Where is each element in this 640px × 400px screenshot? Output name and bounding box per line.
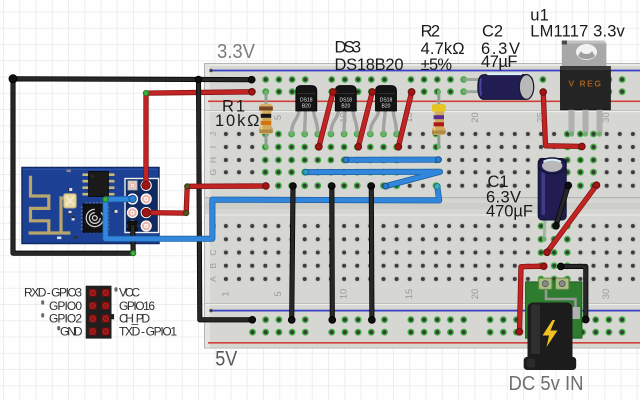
row letters (208, 132, 218, 282)
svg-text:G: G (208, 169, 218, 176)
wire: red 3.3V rail to ESP VCC (142, 89, 255, 190)
svg-text:B: B (208, 263, 218, 269)
svg-text:TXD - GPIO1: TXD - GPIO1 (119, 325, 177, 339)
svg-text:B20: B20 (302, 103, 311, 109)
voltage regulator u1 LM1117 (V REG) (561, 41, 611, 137)
wire: blue ESP GPIO2 to F17 (103, 184, 440, 239)
svg-text:1: 1 (221, 291, 232, 296)
svg-text:R2: R2 (421, 22, 441, 40)
sensor DS18B20 #2 (329, 86, 360, 137)
label DS3 / DS18B20 (335, 39, 404, 74)
resistor R1 10k (259, 90, 273, 149)
svg-text:GPIO16: GPIO16 (119, 299, 155, 313)
wire: red ESP GPIO to breadboard F4 (142, 183, 269, 217)
capacitor C2 47uF (462, 74, 534, 100)
svg-text:B20: B20 (341, 103, 350, 109)
sensor DS18B20 #3 (DS3) (368, 86, 399, 137)
top power rail lines (208, 69, 640, 102)
ESP-01 small SMD parts (57, 170, 118, 240)
svg-text:VCC: VCC (119, 286, 140, 300)
svg-text:5V: 5V (215, 347, 238, 371)
svg-text:DC 5v IN: DC 5v IN (509, 373, 584, 395)
ESP-01 module (blue PCB) (22, 168, 159, 244)
ESP-01 pinout legend block (86, 286, 114, 339)
resistor R2 4.7k (432, 90, 446, 149)
wire: black left vertical to bottom blue rail (195, 76, 255, 323)
sensor DS18B20 #1 (289, 86, 320, 137)
svg-text:C: C (208, 249, 218, 255)
wire: black F6 to bottom rail (288, 183, 296, 324)
breadboard body (204, 63, 640, 349)
ESP-01 flash chip (83, 172, 115, 197)
wire: black diagonal F27 to E26 (553, 182, 572, 229)
column numbers (221, 112, 613, 299)
wire: black GND loop from rail to ESP (9, 75, 255, 256)
wire: red rail to sensor2 I11 (355, 89, 376, 151)
legend labels left (24, 286, 83, 339)
svg-text:DS18B20: DS18B20 (335, 56, 404, 74)
label R2 4.7k ±5% (421, 22, 465, 74)
wire: black B27 to bottom blue rail (558, 263, 590, 323)
svg-text:LM1117 3.3v: LM1117 3.3v (530, 22, 625, 40)
svg-text:470µF: 470µF (486, 203, 533, 221)
svg-text:GND: GND (60, 325, 83, 339)
svg-text:30: 30 (601, 289, 612, 300)
wire: black F9 to bottom rail (329, 183, 336, 324)
svg-text:GPIO2: GPIO2 (49, 312, 82, 326)
legend labels right (119, 286, 177, 339)
wire: red rail to sensor1 I8 (316, 89, 337, 151)
svg-text:RXD - GPIO3: RXD - GPIO3 (24, 286, 82, 300)
bottom power rail lines (208, 309, 640, 344)
wire: red top rail to I28 (regulator out) (540, 89, 585, 150)
ESP-01 header pins block (125, 179, 159, 233)
svg-text:20: 20 (470, 289, 481, 300)
svg-text:10: 10 (339, 289, 350, 300)
center channel groove (205, 197, 640, 216)
svg-text:J: J (208, 132, 218, 136)
wire: blue G7 to F13 (303, 169, 440, 189)
svg-text:±5%: ±5% (421, 56, 453, 74)
svg-text:5: 5 (273, 115, 284, 120)
svg-text:47µF: 47µF (481, 53, 518, 71)
ESP8266 chip with spiral logo (81, 202, 109, 233)
label R1 10k (215, 98, 260, 131)
svg-text:I: I (208, 146, 218, 148)
wire: blue H10 to H17 (343, 157, 441, 163)
ESP-01 crystal (64, 194, 76, 208)
wire: red B25 to bottom red rail (516, 263, 547, 335)
svg-text:B20: B20 (382, 103, 391, 109)
breadboard holes connected (green) (249, 76, 625, 336)
svg-text:DS3: DS3 (335, 39, 362, 57)
label u1 LM1117 3.3v (530, 7, 625, 41)
wire: red diagonal F29 to C25 (544, 182, 600, 256)
svg-text:CH_PD: CH_PD (119, 312, 150, 326)
svg-text:A: A (208, 276, 218, 282)
legend pin marker dots (41, 287, 117, 330)
wire: red rail to sensor3 I14 (395, 89, 415, 151)
svg-text:5: 5 (273, 291, 284, 296)
svg-text:GPIO0: GPIO0 (49, 299, 82, 313)
svg-text:30: 30 (601, 112, 612, 123)
svg-text:V REG: V REG (569, 79, 603, 89)
svg-text:20: 20 (470, 112, 481, 123)
breadboard holes (223, 131, 636, 282)
DC power jack (DC 5v IN) (524, 278, 582, 370)
ESP-01 PCB antenna trace (29, 176, 71, 233)
svg-text:15: 15 (404, 289, 415, 300)
svg-text:10kΩ: 10kΩ (215, 112, 260, 130)
svg-text:H: H (208, 157, 218, 163)
label C2 6.3V 47uF (481, 22, 520, 71)
wire: black F12 to bottom rail (368, 183, 375, 324)
label C1 6.3V 470uF (486, 173, 533, 221)
svg-text:3.3V: 3.3V (217, 40, 255, 63)
svg-text:C2: C2 (482, 22, 503, 40)
capacitor C1 470uF (538, 158, 566, 242)
